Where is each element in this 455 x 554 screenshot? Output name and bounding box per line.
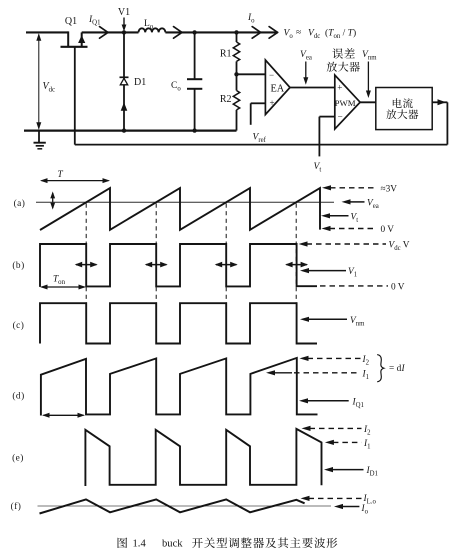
modulation arrow 2: [145, 262, 168, 268]
R2 label: [220, 94, 232, 105]
V_t pointer arrow: [321, 213, 349, 218]
wire top rail Q1 to L_o: [82, 31, 139, 33]
waveform (a) label: [14, 198, 26, 209]
Q1 gate wire down to drive line: [74, 47, 76, 145]
modulation arrow 3: [215, 262, 238, 268]
svg-text:D1: D1: [134, 77, 146, 88]
C_o junction top: [192, 30, 196, 34]
V_ea level label: [367, 199, 379, 211]
I_D1 waveform label: [366, 466, 378, 478]
dashed switching line 3: [225, 204, 227, 304]
svg-text:0 V: 0 V: [391, 282, 405, 292]
svg-text:(Ton / T): (Ton / T): [325, 28, 356, 41]
I_Lo level pointer: [301, 496, 362, 501]
T_on dimension arrow: [40, 285, 86, 290]
V_t label: [314, 162, 322, 174]
T label: [58, 170, 64, 180]
op-amp EA: [265, 60, 290, 115]
I_1 label (d): [362, 369, 370, 381]
I_2 label (d): [362, 355, 370, 367]
I_Q1 pointer arrow: [299, 398, 349, 403]
wire EA output: [290, 87, 335, 89]
current I_Q1 arrow: [100, 27, 109, 39]
wire feedback to Q1 gate: [75, 144, 448, 146]
svg-text:(f): (f): [11, 501, 22, 512]
wire PWM output: [360, 101, 376, 103]
comparator PWM: [335, 75, 361, 129]
V_ref wire: [251, 103, 266, 125]
error amplifier label 误差放大器: [327, 48, 360, 72]
svg-text:−: −: [269, 70, 274, 80]
capacitor C_o bottom wire: [194, 89, 196, 131]
wire bottom rail: [24, 129, 237, 131]
svg-text:PWM: PWM: [335, 98, 356, 108]
0V label: [381, 225, 395, 235]
svg-text:(e): (e): [12, 453, 24, 464]
I_Q1 current waveform: [41, 358, 318, 416]
modulation arrow 4: [285, 262, 308, 268]
waveform (b) label: [12, 260, 24, 271]
resistor R1: [233, 32, 239, 74]
wire top rail L_o to output: [165, 31, 277, 33]
waveform (d) label: [12, 391, 24, 402]
svg-text:≈3V: ≈3V: [381, 184, 398, 194]
svg-text:R2: R2: [220, 94, 232, 105]
V1 pointer arrow: [300, 268, 346, 273]
I_2 level pointer (d): [300, 356, 361, 361]
D1 current arrow (up): [121, 102, 128, 111]
wire divider to EA inverting input: [237, 73, 266, 75]
wire feedback down: [446, 102, 448, 144]
I_o pointer arrow: [334, 504, 359, 509]
node V1 lead arrow: [122, 18, 127, 32]
waveform (e) label: [12, 453, 24, 464]
V_nm waveform label: [350, 316, 365, 328]
inductor ripple waveform: [40, 499, 305, 513]
L_o label: [144, 19, 154, 31]
resistor R2: [233, 74, 239, 130]
svg-text:buck: buck: [162, 538, 183, 549]
V_ref label: [253, 133, 267, 145]
I_o label: [361, 504, 369, 516]
capacitor C_o plates: [187, 79, 202, 89]
I_Q1 waveform label: [352, 397, 364, 409]
0V label (b): [391, 282, 405, 292]
diode D1 symbol: [120, 77, 129, 85]
V_t waveform label: [351, 212, 359, 224]
C_o junction bottom: [192, 128, 196, 132]
svg-text:1.4: 1.4: [133, 538, 147, 549]
I_2 level pointer (e): [302, 426, 362, 431]
I_D1 current waveform: [85, 429, 321, 486]
svg-text:+: +: [337, 83, 342, 93]
node V1 junction: [122, 30, 126, 34]
dashed switching line 2: [155, 204, 157, 304]
V_ea level line: [36, 201, 334, 203]
svg-text:(a): (a): [14, 198, 26, 209]
svg-text:0 V: 0 V: [381, 225, 395, 235]
I_o label: [247, 13, 255, 25]
V_nm arrow: [366, 62, 371, 99]
3V peak level pointer: [322, 185, 377, 190]
dashed switching line 4: [295, 204, 297, 304]
svg-text:≈: ≈: [296, 28, 301, 38]
svg-text:= d: = d: [389, 364, 402, 374]
resistor divider top junction: [234, 30, 238, 34]
I_D1 pointer arrow: [324, 467, 364, 472]
svg-text:R1: R1: [220, 49, 232, 60]
Q1 label: [65, 16, 77, 27]
V_dc label: [43, 81, 56, 94]
V_dc source dimension arrow: [36, 33, 41, 130]
V_ea ripple double arrow: [50, 191, 55, 209]
svg-text:(b): (b): [12, 260, 24, 271]
modulation arrow 1: [75, 262, 98, 268]
capacitor C_o top wire: [194, 32, 196, 79]
period T dimension arrow: [40, 178, 110, 183]
current I_o arrow chevrons: [252, 27, 277, 39]
Vdc level label: [389, 241, 410, 253]
I_1 label (e): [363, 439, 371, 451]
0V dashed level (b): [320, 285, 388, 287]
node R1-R2 junction: [234, 72, 238, 76]
Vdc level pointer: [299, 241, 387, 246]
waveform (f) label: [11, 501, 22, 512]
I_2 label (e): [363, 425, 371, 437]
on-time double arrow (d): [42, 413, 85, 418]
V_ea pointer arrow: [342, 199, 365, 204]
figure caption 图1.4: [118, 537, 338, 549]
svg-text:T: T: [58, 170, 64, 180]
wire top rail left segment (Vdc+ to Q1 source): [26, 31, 68, 33]
V_o output equation: [284, 28, 357, 41]
diode D1 wire: [123, 32, 125, 130]
C_o label: [171, 81, 181, 93]
dashed switching line 1: [85, 204, 87, 304]
svg-text:V1: V1: [118, 7, 130, 18]
svg-text:−: −: [338, 112, 343, 122]
I_Lo label: [363, 494, 377, 506]
ground: [34, 131, 46, 149]
svg-text:Q1: Q1: [65, 16, 77, 27]
svg-text:+: +: [269, 98, 274, 108]
V_ea label: [300, 50, 312, 62]
I_o mean level line: [38, 505, 332, 507]
V_nm square waveform: [40, 303, 317, 343]
D1 bottom junction: [122, 128, 126, 132]
sawtooth V_t waveform: [40, 188, 320, 230]
node V1 label: [118, 7, 130, 18]
I_1 level pointer (e): [325, 440, 362, 445]
current amplifier box 电流放大器: [376, 88, 432, 130]
dI label: [389, 364, 406, 374]
V1 waveform label: [348, 267, 357, 279]
3V label: [381, 184, 398, 194]
V_nm pointer arrow: [300, 317, 347, 322]
0V level pointer: [322, 226, 377, 231]
D1 label: [134, 77, 146, 88]
V1 square waveform: [40, 244, 317, 287]
svg-text:(c): (c): [13, 320, 25, 331]
I_Q1 label: [88, 15, 100, 27]
waveform (c) label: [13, 320, 25, 331]
R1 label: [220, 49, 232, 60]
I_1 level pointer (d): [266, 370, 361, 375]
V_nm label: [362, 50, 377, 62]
T_on label: [53, 275, 66, 287]
V_ea arrow: [303, 62, 308, 85]
wire current amp output: [432, 99, 447, 105]
ripple brace: [377, 355, 384, 382]
V_t input wire: [319, 117, 334, 157]
transistor Q1: [61, 31, 88, 46]
svg-text:(d): (d): [12, 391, 24, 402]
svg-text:EA: EA: [271, 84, 285, 95]
inductor L_o: [139, 28, 166, 32]
arrow after L_o: [174, 27, 183, 39]
